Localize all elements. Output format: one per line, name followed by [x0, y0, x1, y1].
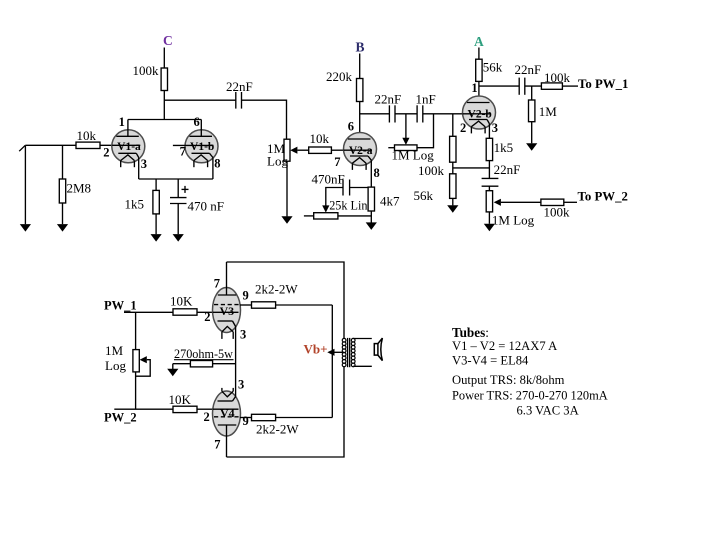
wire: V3 pin 9 to resistor [240, 304, 252, 306]
cathode V4 [218, 400, 233, 402]
svg-text:6: 6 [194, 115, 200, 129]
svg-text:10k: 10k [310, 131, 330, 146]
wire: wiper loop to pot bottom [136, 360, 151, 377]
resistor 1M (PW_1 return) [529, 100, 535, 122]
plate lead V1-a pin 1 [127, 120, 129, 137]
arrow to Vb+ [327, 349, 334, 356]
transformer core [347, 338, 349, 367]
wire: 1M to ground [531, 122, 533, 144]
wire: secondary top to speaker [353, 338, 372, 340]
wire: 1k5 to 22nF cap [488, 161, 490, 179]
svg-text:V1 – V2 = 12AX7 A: V1 – V2 = 12AX7 A [452, 339, 557, 353]
tube V2-b [463, 96, 496, 129]
svg-text:7: 7 [180, 145, 186, 159]
grid line V4 (pin 2) [213, 408, 239, 410]
wire: pot bottom to PW_2 line [135, 372, 137, 409]
wiper arrow (1M Log feedback) [494, 199, 501, 206]
wire: tone pot right terminal up to signal [417, 114, 434, 148]
wire: 270ohm to cathode bus [213, 363, 236, 365]
plate lead V3 pin 7 [226, 262, 228, 295]
grid line V3 (pin 2) [213, 311, 239, 313]
wire: 100k to PW_2 label [564, 201, 577, 203]
svg-text:9: 9 [243, 414, 249, 428]
resistor 100k (V2-b grid divider upper) [450, 136, 456, 162]
svg-text:Output TRS: 8k/8ohm: Output TRS: 8k/8ohm [452, 373, 565, 387]
wire: 10k to V2-a grid pin 7 [331, 149, 343, 151]
wire: plate node to 22nF [164, 99, 235, 101]
wire: 470nF to ground [177, 204, 179, 235]
svg-text:1: 1 [119, 115, 125, 129]
plate lead V4 pin 7 [226, 425, 228, 457]
svg-text:7: 7 [214, 437, 220, 451]
wire: 100k to 56k junction [452, 162, 454, 174]
wire: 10K to V4 grid pin 2 [197, 408, 213, 410]
ground (56k) [447, 205, 458, 213]
wire: 100k to PW_1 label [562, 85, 578, 87]
ground (470nF) [173, 234, 184, 242]
wire: 1nF to V2-b grid pin 2 [423, 113, 463, 115]
svg-text:25k Lin: 25k Lin [329, 198, 367, 212]
potentiometer 1M Log (tone, horizontal) [395, 145, 418, 151]
wire: 220k to V2-a plate pin 6 [359, 102, 361, 140]
capacitor 22nF (coupling V1 to V2-a) [235, 92, 237, 109]
cathode lead V1-a pin 3 [138, 158, 140, 180]
wire: 1k5 to ground [155, 214, 157, 234]
svg-text:Tubes:: Tubes: [452, 325, 489, 340]
plus marking [182, 188, 189, 190]
resistor 2k2-2W (V3 screen) [252, 302, 276, 308]
svg-text:V1-a: V1-a [117, 141, 141, 153]
ground (feedback pot) [484, 224, 495, 232]
svg-text:2: 2 [204, 410, 210, 424]
wire: resistor to screen bus [276, 417, 333, 419]
wire: PW_2 to 10K [114, 408, 173, 410]
cathode V3 [218, 320, 233, 322]
svg-text:470nF: 470nF [312, 171, 345, 186]
ground (270ohm) [167, 369, 178, 377]
grid line V2-a (pin 7) [344, 149, 373, 151]
resistor 2M8 [59, 179, 65, 203]
wire: input to V1-a grid pin 2 [25, 144, 112, 146]
svg-text:3: 3 [492, 121, 498, 135]
svg-text:470 nF: 470 nF [188, 199, 224, 214]
wire: wiper drop to tone pot [405, 114, 407, 138]
svg-text:10K: 10K [169, 392, 192, 407]
svg-text:1M Log: 1M Log [392, 148, 435, 163]
wire: 22nF to 1nF [395, 113, 417, 115]
wire: bottom rail (V4 plate to transformer) [227, 367, 345, 457]
resistor 56k (V2-b plate load) [476, 59, 482, 81]
svg-text:Log: Log [267, 153, 288, 168]
wire: V2-a plate to coupling caps [360, 113, 390, 115]
capacitor 470nF (V2-a cathode bypass) [342, 180, 344, 196]
svg-text:8: 8 [374, 166, 380, 180]
svg-text:22nF: 22nF [226, 79, 253, 94]
resistor 2k2-2W (V4 screen) [252, 414, 276, 420]
svg-text:PW_1: PW_1 [104, 298, 137, 312]
resistor 100k (PW_2 feedback) [541, 199, 564, 205]
wire: bus to 470nF [177, 179, 179, 198]
wiper arrow (1M Log volume) [290, 147, 297, 154]
wire: V1 cathode bus [139, 178, 213, 180]
wire: 25k Lin right to 4k7 bottom [338, 215, 371, 217]
wire: 470nF left to 25k wiper [326, 188, 343, 206]
wiper arrow (25k Lin) [322, 205, 329, 212]
svg-text:22nF: 22nF [375, 91, 402, 106]
svg-text:V4: V4 [220, 406, 235, 420]
resistor 4k7 (V2-a cathode) [368, 187, 374, 211]
wire: wiper to 100k [501, 201, 541, 203]
grid stub V1-b (pin 7) [173, 144, 214, 146]
svg-text:B: B [356, 39, 365, 54]
wire: input shield drop [24, 146, 26, 224]
stub: tone pot left terminal [388, 147, 394, 149]
svg-text:56k: 56k [414, 188, 434, 203]
svg-text:Vb+: Vb+ [304, 341, 328, 356]
wire: pot bottom to ground [488, 212, 490, 224]
svg-text:3: 3 [141, 157, 147, 171]
wire: 56k to V2-b plate pin 1 [478, 81, 480, 102]
wire: bus to 1k5 [155, 179, 157, 190]
ground (input) [20, 224, 31, 232]
cathode lead V2-b pin 3 [488, 124, 490, 139]
wire: 470nF to pin 8 node [350, 187, 372, 189]
svg-text:To PW_2: To PW_2 [578, 189, 628, 203]
wire: V4 pin 9 to resistor [240, 417, 252, 419]
capacitor 22nF (V2-a plate coupling) [388, 105, 390, 122]
cathode lead V2-a pin 8 [370, 160, 372, 187]
svg-text:220k: 220k [326, 69, 353, 84]
svg-text:1: 1 [471, 81, 477, 95]
svg-text:V1-b: V1-b [190, 141, 214, 153]
svg-text:100k: 100k [544, 204, 571, 219]
svg-text:22nF: 22nF [494, 162, 521, 177]
svg-text:2k2-2W: 2k2-2W [255, 282, 298, 297]
tube V1-b [185, 130, 218, 163]
wire: V3 cathode to V4 cathode [235, 327, 237, 397]
svg-text:7: 7 [334, 155, 340, 169]
svg-text:1M Log: 1M Log [492, 212, 535, 227]
wire: A to 56k [478, 48, 480, 60]
wire: screen bus to transformer centre tap [335, 351, 345, 353]
svg-text:2: 2 [204, 310, 210, 324]
wiper arrow (1M Log tone) [402, 138, 409, 145]
tube V2-a [344, 133, 377, 166]
svg-text:PW_2: PW_2 [104, 411, 137, 425]
resistor 10k (V2-a grid) [309, 147, 332, 153]
grid line V2-b (pin 2) [463, 113, 492, 115]
wire: plate node up to 100k [163, 91, 165, 120]
wire: C to 100k [163, 48, 165, 69]
input terminal [19, 145, 25, 151]
ground (1k5) [151, 234, 162, 242]
svg-text:100k: 100k [418, 163, 445, 178]
capacitor 1nF [416, 105, 418, 122]
transformer T1 primary [342, 338, 346, 366]
grid line V1-a (pin 2) [112, 144, 140, 146]
wire: plate node to 22nF out cap [479, 85, 519, 87]
wire: screen bus vertical [331, 305, 333, 418]
stub: 25k Lin left terminal [304, 215, 314, 217]
cathode lead V1-b pin 8 [212, 158, 214, 180]
svg-text:1M: 1M [539, 104, 558, 119]
transformer T1 secondary [351, 338, 355, 366]
svg-text:100k: 100k [133, 63, 160, 78]
screen grid V3 (pin 9, dashed) [214, 304, 240, 306]
ground (2M8) [57, 224, 68, 232]
svg-text:Log: Log [105, 358, 126, 373]
wire: 22nF to 100k [525, 85, 542, 87]
svg-text:V3: V3 [219, 304, 234, 318]
wire: top rail (V3 plate to transformer) [227, 262, 345, 338]
tube V3 (EL84) [213, 288, 241, 333]
svg-text:To PW_1: To PW_1 [578, 77, 628, 91]
wire: 10K to V3 grid pin 2 [197, 311, 213, 313]
svg-text:1nF: 1nF [416, 91, 436, 106]
svg-text:6.3 VAC 3A: 6.3 VAC 3A [517, 403, 579, 417]
svg-text:10K: 10K [170, 294, 193, 309]
plate lead V1-b pin 6 [200, 120, 202, 137]
resistor 220k (V2-a plate load) [357, 79, 363, 102]
potentiometer 1M Log (balance) [133, 350, 139, 372]
resistor 1k5 (V2-b cathode) [486, 138, 492, 160]
svg-text:270ohm-5w: 270ohm-5w [174, 347, 233, 361]
svg-text:6: 6 [348, 120, 354, 134]
potentiometer 1M Log (feedback) [486, 191, 492, 212]
resistor 10K (V4 grid) [173, 406, 197, 412]
resistor 10K (V3 grid) [173, 309, 197, 315]
potentiometer 25k Lin [314, 213, 338, 219]
screen grid V4 (pin 9, dashed) [214, 416, 240, 418]
wire: resistor to screen bus [276, 304, 333, 306]
resistor 100k (PW_1 feed) [541, 83, 562, 89]
capacitor 22nF (output coupling to PW_1) [518, 78, 520, 95]
svg-text:3: 3 [238, 377, 244, 391]
svg-text:Power TRS: 270-0-270 120mA: Power TRS: 270-0-270 120mA [452, 389, 608, 403]
wire: grid node down to 100k [452, 114, 454, 137]
svg-text:V2-b: V2-b [468, 108, 492, 120]
heater V4 [222, 391, 233, 397]
svg-text:10k: 10k [77, 128, 97, 143]
svg-text:56k: 56k [483, 59, 503, 74]
wire: PW_1 to 10K [124, 311, 173, 313]
svg-text:1k5: 1k5 [494, 140, 513, 155]
svg-text:2M8: 2M8 [67, 181, 92, 196]
wire: PW_1 node down to balance pot [135, 312, 137, 349]
resistor 10k (input grid stopper) [76, 142, 100, 148]
wire: 4k7 to ground [370, 211, 372, 223]
wire: junction down to 1M [531, 86, 533, 100]
svg-text:C: C [163, 33, 173, 48]
svg-text:8: 8 [214, 157, 220, 171]
ground (1M) [526, 143, 537, 151]
svg-text:9: 9 [243, 288, 249, 302]
wiper arrow (balance pot) [140, 356, 147, 363]
potentiometer 1M Log (volume) [284, 139, 290, 161]
svg-text:4k7: 4k7 [380, 193, 400, 208]
wire: V1 plates common [128, 119, 201, 121]
svg-text:7: 7 [214, 276, 220, 290]
capacitor 470 nF (V1 cathode bypass, electrolytic) [170, 197, 187, 199]
resistor 56k (V2-b grid divider lower) [450, 174, 456, 199]
ground (volume pot) [281, 216, 292, 224]
wire: pot wiper to 10k [297, 149, 308, 151]
resistor 1k5 (V1 cathode) [153, 190, 159, 214]
resistor 100k (V1 plate load) [161, 68, 167, 91]
svg-text:1k5: 1k5 [125, 197, 145, 212]
heater V3 [222, 326, 233, 332]
tube V1-a [112, 130, 145, 163]
ground (4k7) [366, 222, 377, 230]
svg-text:V3-V4 = EL84: V3-V4 = EL84 [452, 354, 529, 368]
wire: cap to pot [488, 186, 490, 191]
svg-text:1M: 1M [105, 343, 124, 358]
wire: 270ohm to ground [173, 363, 191, 365]
wire: pot bottom to ground [286, 161, 288, 216]
speaker LS1 [374, 338, 382, 361]
svg-text:22nF: 22nF [515, 62, 542, 77]
svg-text:3: 3 [240, 328, 246, 342]
wire: secondary bottom to speaker [353, 365, 372, 367]
capacitor 22nF (V2-b cathode, to pot) [482, 177, 499, 179]
svg-text:V2-a: V2-a [349, 145, 373, 157]
svg-text:2k2-2W: 2k2-2W [256, 422, 299, 437]
svg-text:2: 2 [460, 121, 466, 135]
wire: junction to 2M8 [62, 145, 64, 179]
svg-text:2: 2 [103, 146, 109, 160]
wire: 56k to ground [452, 198, 454, 205]
resistor 270ohm-5w (shared cathode) [190, 361, 212, 367]
wire: 2M8 to ground [62, 203, 64, 224]
wire: divider junction to V2-b cathode node [453, 167, 490, 169]
svg-text:100k: 100k [544, 70, 571, 85]
wire: B to 220k [359, 54, 361, 79]
wire: 22nF to volume pot [242, 100, 287, 139]
svg-text:A: A [474, 34, 484, 49]
tube V4 (EL84) [213, 391, 241, 436]
